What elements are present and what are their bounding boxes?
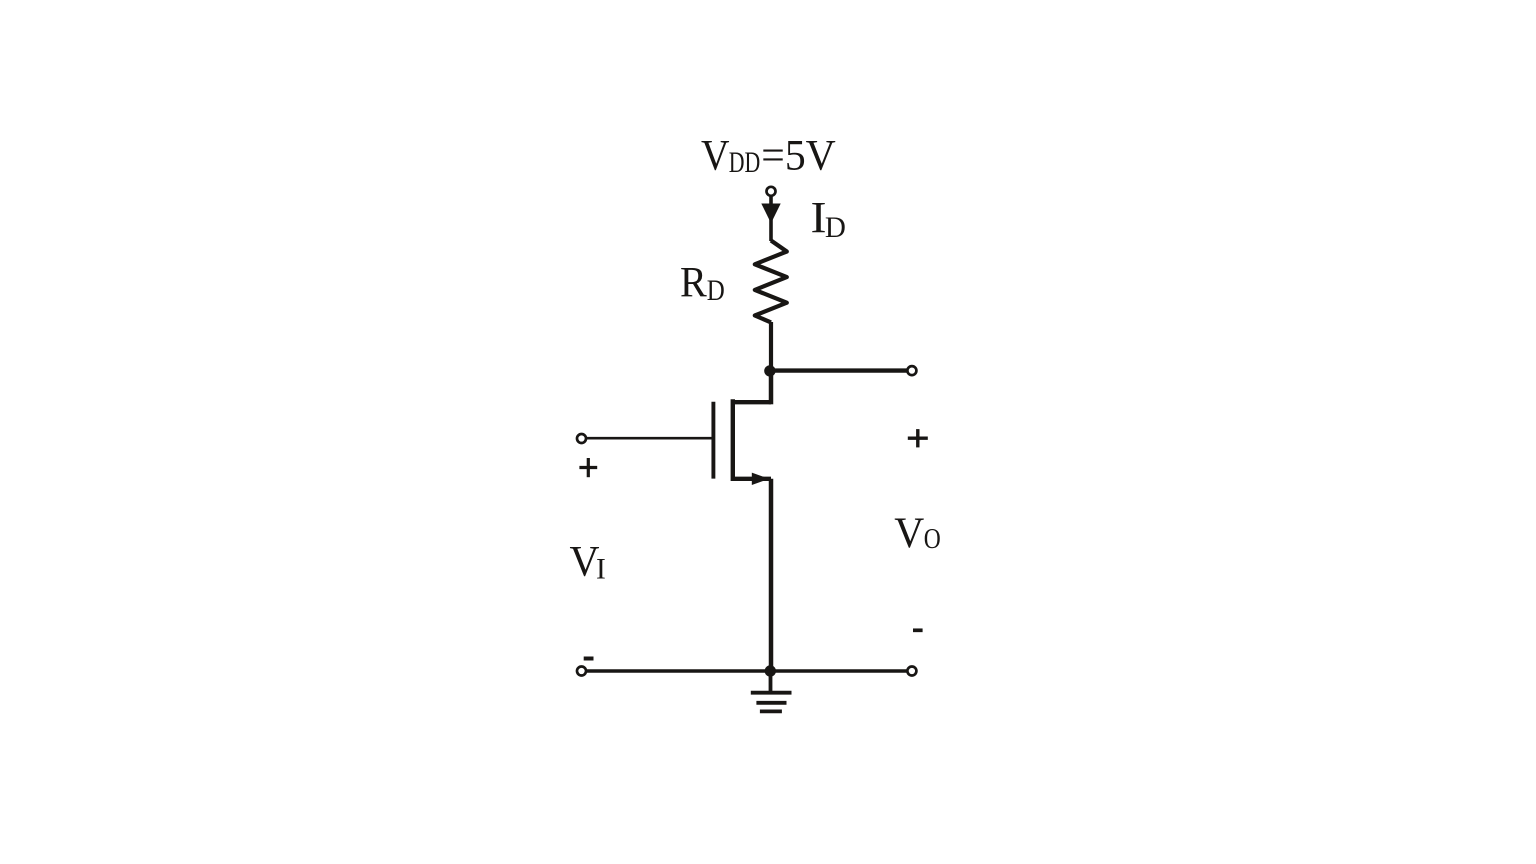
terminal VO plus xyxy=(907,366,916,375)
label VDD=5V xyxy=(701,133,836,180)
gate bar xyxy=(711,402,715,479)
label minus (output) xyxy=(913,628,923,632)
node ground junction xyxy=(765,665,776,676)
svg-text:O: O xyxy=(924,523,941,555)
wire VDD to resistor RD xyxy=(769,196,773,241)
svg-text:V: V xyxy=(701,133,730,180)
channel bar xyxy=(731,399,735,481)
svg-text:DD: DD xyxy=(729,147,761,179)
source lead xyxy=(734,477,771,481)
drain lead xyxy=(734,400,771,404)
terminal VI plus xyxy=(577,434,586,443)
wire output ground (bottom right) xyxy=(771,669,908,673)
svg-text:R: R xyxy=(680,260,707,307)
svg-text:=5V: =5V xyxy=(761,133,836,180)
label VI xyxy=(570,538,606,585)
label minus (input) xyxy=(584,657,594,661)
label plus (output) xyxy=(908,429,928,447)
resistor RD xyxy=(755,241,787,323)
wire source to ground node xyxy=(769,479,774,671)
terminal VDD xyxy=(767,187,776,196)
node drain junction xyxy=(764,365,775,376)
source arrow xyxy=(752,473,770,485)
ground xyxy=(751,671,792,711)
label ID xyxy=(811,193,846,244)
wire input ground (bottom left) xyxy=(586,669,771,673)
label VO xyxy=(894,509,941,557)
svg-text:D: D xyxy=(825,211,846,244)
svg-text:V: V xyxy=(894,509,924,557)
terminal VI minus xyxy=(577,667,586,676)
wire drain node to output terminal xyxy=(771,368,908,372)
label plus (input) xyxy=(579,458,597,477)
wire gate to input terminal xyxy=(586,437,712,440)
svg-text:I: I xyxy=(596,554,606,586)
transistor M1 (NMOS) xyxy=(713,371,771,486)
current arrow ID xyxy=(761,204,780,224)
svg-text:V: V xyxy=(570,538,600,585)
svg-text:D: D xyxy=(707,275,725,307)
wire drain node to drain lead xyxy=(769,371,774,405)
wire RD to drain node xyxy=(769,322,773,371)
label RD xyxy=(680,260,725,307)
terminal VO minus xyxy=(907,667,916,676)
